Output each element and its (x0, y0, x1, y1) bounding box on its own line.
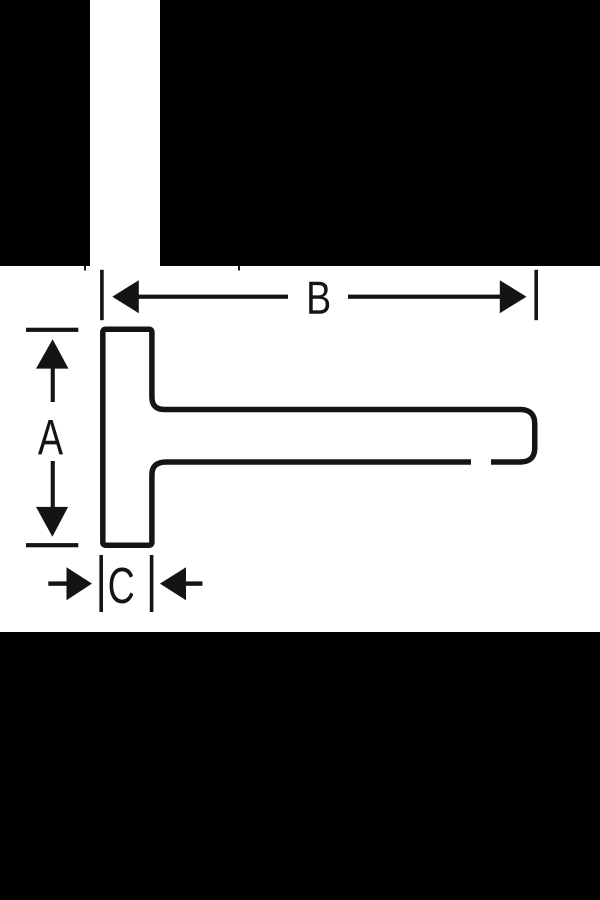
dimension C left arrowhead (67, 567, 93, 600)
dimension C left arrow shaft (48, 581, 68, 585)
bottom black band (0, 632, 600, 900)
dimension C right arrowhead (160, 567, 186, 600)
dimension B arrowhead left (112, 280, 139, 313)
dimension C right arrow shaft (184, 581, 203, 585)
label B (309, 282, 329, 314)
dimension A overline (26, 328, 78, 332)
dimension B arrow line right (348, 295, 500, 299)
dimension B arrow line left (137, 295, 288, 299)
dimension A down arrowhead (36, 507, 68, 537)
dimension B extension line left (100, 270, 104, 320)
white strip in top band (90, 0, 160, 266)
dimension C extension line right (150, 555, 154, 612)
label A (38, 420, 63, 454)
registration tick below top band (right) (238, 266, 240, 271)
dimension B extension line right (534, 270, 538, 320)
dimension A upper shaft (51, 367, 55, 402)
gap in shaft bottom edge (471, 455, 491, 468)
registration tick below top band (left) (84, 266, 86, 271)
label C (110, 567, 134, 603)
top black band (0, 0, 600, 266)
dimension A underline (26, 543, 78, 547)
dimension B arrowhead right (500, 280, 527, 313)
dimension C extension line left (99, 555, 103, 612)
dimension A lower shaft (51, 461, 55, 508)
dimension A up arrowhead (36, 339, 69, 368)
part outline (T-shaped body with shaft) (103, 329, 535, 545)
